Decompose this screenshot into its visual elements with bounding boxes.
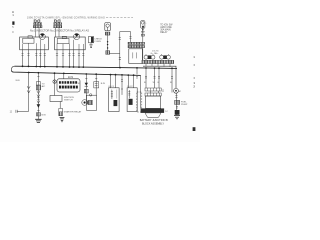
bus line 1 left curve [12, 66, 15, 70]
svg-text:BLOCK ASSEMBLY: BLOCK ASSEMBLY [142, 123, 164, 126]
chain at x96.2 [94, 74, 99, 95]
wire color label right of ECU grid [78, 83, 80, 85]
relay box U1 [20, 34, 49, 50]
distributor pickup coils right pair [160, 54, 171, 59]
wire from box B1 down [59, 102, 61, 109]
wire ignition coil down [142, 28, 144, 60]
label M right of motor [179, 91, 181, 93]
svg-text:2: 2 [193, 85, 195, 88]
svg-text:1C: 1C [165, 111, 168, 113]
wire drop x172 [171, 68, 173, 92]
wire group A drops to bus [23, 50, 45, 67]
svg-text:RELAY: RELAY [160, 31, 168, 34]
page letter bottom right [193, 127, 196, 131]
wire group B drops to bus [57, 50, 83, 67]
bus 1 junction dots [22, 65, 173, 69]
wire drop x146 to block [145, 68, 147, 88]
right margin index marks [193, 55, 195, 88]
injector coil cluster A [33, 19, 42, 28]
label above CN4 [127, 86, 133, 88]
label above distributor block [151, 50, 160, 54]
header dashed continuation [106, 17, 133, 19]
sensor S1 connector [59, 108, 63, 115]
svg-text:5: 5 [12, 26, 14, 29]
svg-text:STARTER RELAY: STARTER RELAY [64, 111, 82, 114]
hatch connector on coil wire [141, 34, 144, 36]
label 1c right of block base [165, 111, 168, 113]
svg-text:+: + [145, 22, 147, 24]
ground G2 below sensor [60, 117, 65, 121]
bus 1b parallel segment right [143, 66, 176, 68]
bus line 2 [12, 70, 141, 75]
svg-text:ECM: ECM [68, 77, 73, 79]
connector box CN3 [109, 75, 120, 112]
wire cluster B to box B [56, 28, 60, 37]
label right of x38 chain [41, 83, 46, 116]
svg-text:BATTERY JUNCTION B: BATTERY JUNCTION B [140, 119, 169, 122]
label right of sensor S1 [64, 111, 82, 114]
coil side label [145, 22, 147, 24]
speed sensor box [87, 94, 97, 111]
svg-text:G: G [157, 82, 159, 84]
margin index text top [12, 11, 14, 17]
small ticks below connector [176, 106, 178, 108]
wire color label mid [101, 83, 105, 85]
svg-text:PUMP: PUMP [181, 104, 188, 106]
junction block trapezoid stand [145, 113, 161, 117]
label right of motor connector [181, 101, 188, 106]
junction block body [146, 96, 161, 108]
speed sensor circle [82, 100, 93, 106]
svg-text:b: b [194, 55, 196, 59]
sensor chain at x38.4 [35, 73, 41, 123]
svg-text:1J: 1J [162, 90, 165, 93]
wire line2 to grid [63, 73, 65, 79]
wire cluster A to box A [36, 28, 40, 37]
connector dark box on fuse wire [106, 51, 110, 55]
connector box CN4 [127, 75, 137, 111]
svg-text:1: 1 [12, 14, 14, 17]
wire labels right drops [144, 82, 172, 84]
svg-text:A/C: A/C [42, 85, 46, 88]
connector double bar block CN1 [128, 42, 145, 48]
junction block dark base [141, 108, 165, 113]
component label text row [30, 29, 89, 32]
svg-text:DLC1: DLC1 [109, 86, 115, 88]
igniter box U3 [129, 49, 143, 64]
fuel pump motor circle [174, 88, 179, 93]
ground G1 below resistor [90, 43, 93, 48]
wire stub at x122 with ticks [121, 75, 123, 95]
fuse F1 [105, 23, 111, 31]
bus 2 junction dots [28, 72, 135, 77]
dark box on motor wire [175, 110, 180, 115]
label inside CN3 [111, 90, 113, 92]
svg-text:W: W [153, 82, 156, 84]
svg-text:R: R [170, 82, 172, 84]
margin dark square [12, 21, 14, 24]
margin lower text [12, 26, 14, 34]
wire group B pin ticks [56, 54, 84, 56]
ECU label above grid [68, 77, 73, 79]
svg-text:W-B: W-B [16, 80, 21, 82]
wire drop x137 with ticks [136, 68, 138, 78]
junction block second bar [145, 91, 161, 96]
wire color label left under bus [16, 80, 21, 82]
label text right of resistor R1 [94, 38, 102, 43]
diode chain at x86.3 [84, 74, 88, 104]
wire staple x120 to bus [119, 32, 132, 68]
dagger junction symbol on coil wire [141, 31, 145, 33]
svg-text:F: F [194, 64, 196, 67]
svg-text:T: T [111, 90, 113, 92]
bus 2 right end drop [140, 75, 142, 108]
dashed shield box [137, 92, 142, 112]
connector hatched box on motor wire [175, 100, 180, 104]
connector chain at x28.7 [16, 73, 30, 113]
injector coil cluster B [54, 19, 62, 28]
svg-text:M: M [179, 91, 181, 93]
box B1 ignition switch [50, 96, 62, 102]
svg-text:SWITCH: SWITCH [64, 99, 73, 101]
svg-text:0: 0 [12, 31, 14, 34]
label right of box B1 [64, 97, 74, 102]
svg-text:W-B: W-B [41, 115, 46, 117]
relay box U2 [55, 34, 86, 50]
text block top right [160, 24, 173, 34]
svg-text:AM2 FUSE: AM2 FUSE [160, 26, 172, 29]
svg-text:1J: 1J [10, 112, 12, 114]
label above CN3 [109, 86, 115, 88]
header title text row [27, 16, 105, 19]
svg-text:DLC2: DLC2 [127, 86, 133, 88]
svg-text:CONN: CONN [94, 41, 101, 43]
bus 1 right corner drop to motor [175, 68, 177, 88]
wire group A pin ticks [21, 54, 46, 56]
wire drop x159 to block [158, 68, 160, 88]
wire drop x154.5 to block [154, 68, 156, 88]
ECU connector CN2 grid [57, 79, 80, 92]
text under junction block [140, 119, 169, 126]
lamp chain at x54.5 [53, 73, 57, 95]
ignition coil T1 [141, 21, 145, 29]
svg-text:B-W: B-W [101, 83, 105, 85]
label at left connector [10, 112, 12, 114]
label 1J near block [162, 90, 165, 93]
wire fuse down with connector dots [107, 35, 120, 54]
junction block top bar [145, 88, 161, 91]
distributor bar pin stubs to bus [146, 64, 170, 67]
wire below motor with ticks [175, 93, 177, 115]
svg-text:B: B [144, 82, 146, 84]
svg-text:G+ NE+: G+ NE+ [151, 53, 160, 55]
ground G3 motor [174, 116, 180, 119]
distributor connector hatched bar [142, 60, 174, 63]
svg-text:1996 TOYOTA CAMRY EFI - ENGINE: 1996 TOYOTA CAMRY EFI - ENGINE CONTROL W… [27, 16, 105, 19]
svg-text:No.1 INJECTOR No.2 INJECTOR: No.1 INJECTOR No.2 INJECTOR No.3 RELAY A… [30, 29, 89, 32]
distributor pickup coils left pair [144, 54, 155, 59]
svg-text:W: W [78, 83, 80, 85]
connector hatched bar under fuse [105, 32, 110, 35]
resistor R1 block [89, 37, 94, 43]
svg-text:F: F [194, 77, 196, 80]
main bus line 1 [15, 66, 178, 68]
